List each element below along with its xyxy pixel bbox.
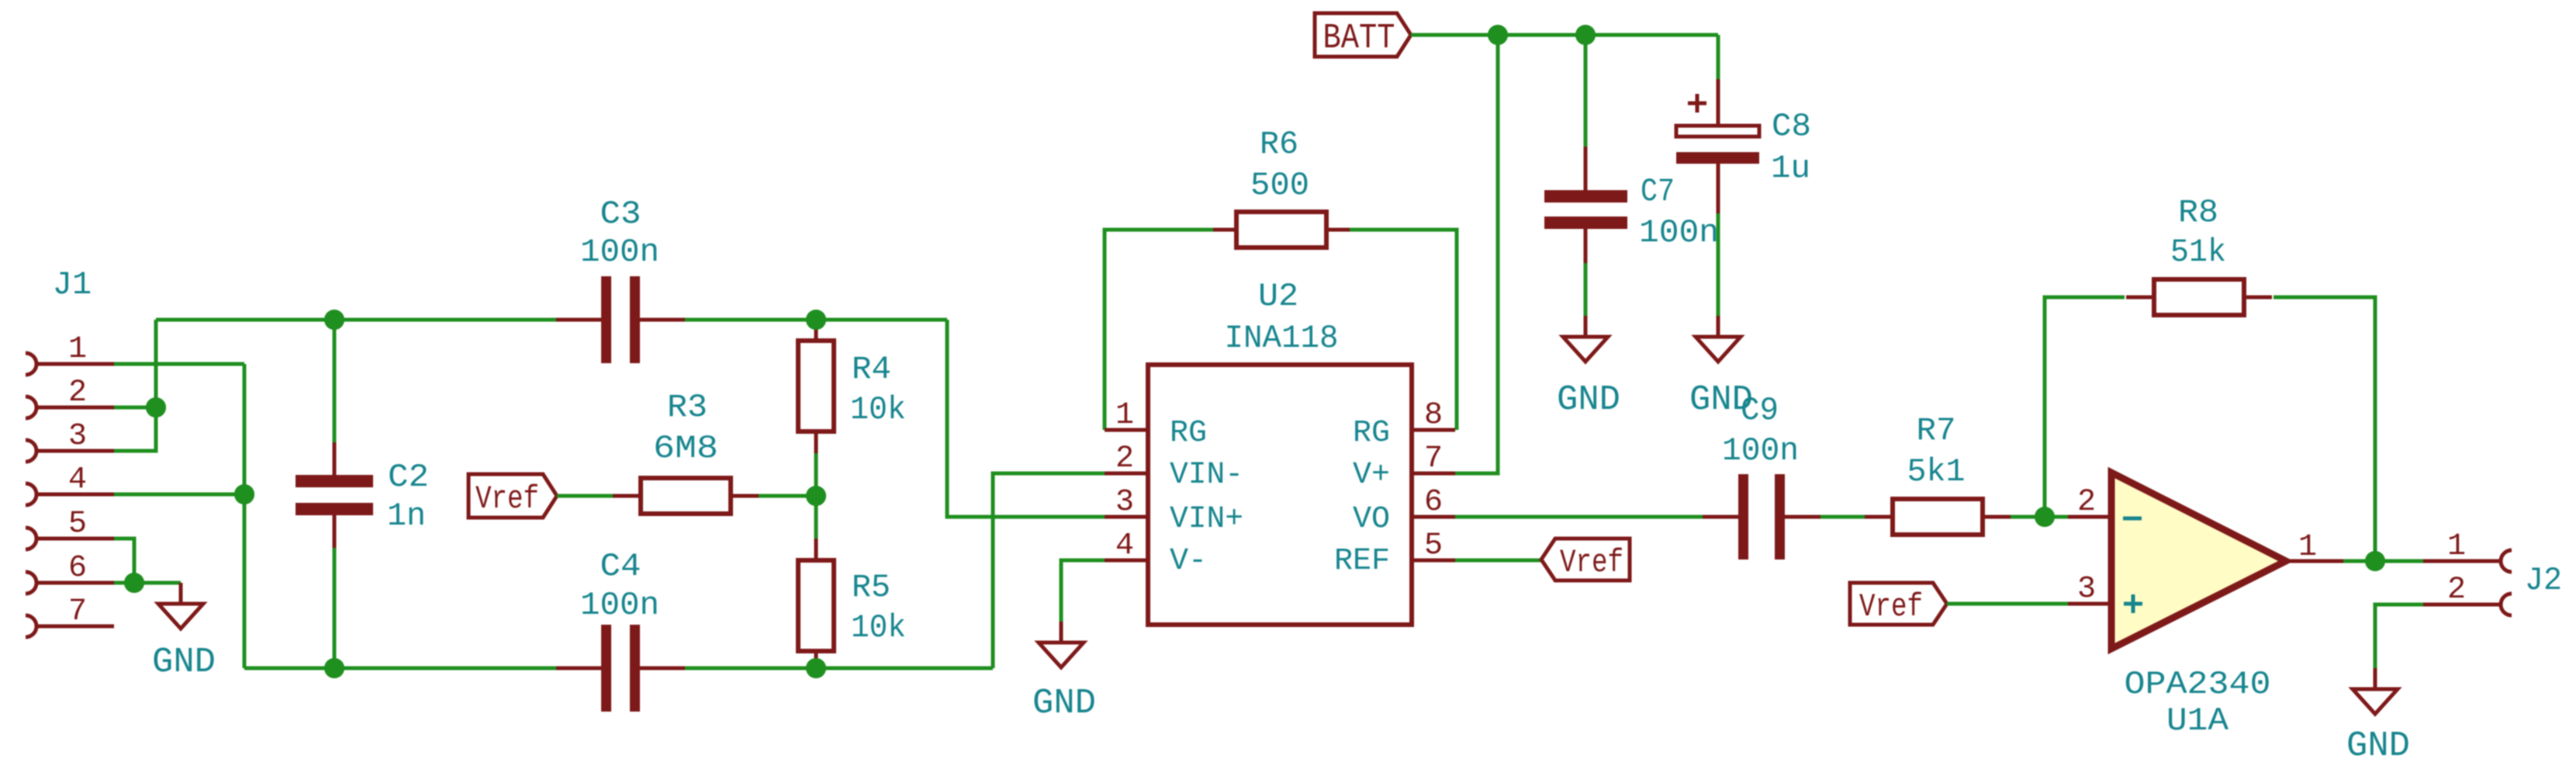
op-amp U1A OPA2340 [2111, 473, 2286, 649]
wire C8 bottom [1717, 213, 1720, 316]
capacitor C4 [556, 625, 685, 712]
U2 pin stubs 1-4 (left) and 5-8 (right) [1105, 430, 1455, 560]
svg-text:GND: GND [152, 643, 216, 682]
svg-text:C9: C9 [1741, 392, 1779, 429]
svg-text:5: 5 [1424, 528, 1443, 563]
svg-text:4: 4 [1115, 528, 1134, 563]
wire R8 to output node [2273, 297, 2375, 561]
wire C2 top lead [333, 442, 337, 475]
svg-text:7: 7 [68, 594, 87, 629]
power flag Vref (R3) [469, 474, 557, 518]
wire C8 top [1717, 35, 1720, 79]
wire J1 pin6 to ground [114, 581, 181, 585]
svg-text:3: 3 [68, 419, 87, 454]
svg-text:C7: C7 [1641, 173, 1675, 210]
svg-text:REF: REF [1334, 544, 1390, 579]
junction dots overlay [124, 25, 2385, 678]
svg-text:8: 8 [1424, 398, 1443, 433]
svg-text:51k: 51k [2170, 234, 2226, 271]
wire U2 V- to ground [1061, 560, 1105, 622]
junction output node [2365, 551, 2385, 571]
svg-text:1u: 1u [1771, 150, 1810, 187]
capacitor C7 [1544, 147, 1627, 272]
wire J1 pin1 to node [114, 362, 244, 366]
svg-text:R6: R6 [1260, 126, 1298, 163]
wire J2 pin2 to ground [2375, 605, 2423, 668]
power flag Vref (REF) [1541, 539, 1630, 580]
svg-text:R4: R4 [852, 351, 891, 388]
svg-text:VIN-: VIN- [1170, 458, 1243, 493]
svg-text:J1: J1 [53, 266, 92, 303]
svg-text:VO: VO [1353, 502, 1390, 537]
svg-text:500: 500 [1250, 167, 1309, 204]
wire C2 bottom [333, 548, 337, 668]
wire J1 pin2 to junction [114, 406, 156, 410]
junction top rail R4 [806, 310, 826, 330]
wire node up to R8 [2045, 297, 2125, 517]
wire R4 bottom to node [814, 453, 818, 496]
junction J1 pin2/pin3 node [146, 397, 166, 417]
ground symbol GND (C7) [1584, 316, 1588, 337]
svg-text:6M8: 6M8 [653, 430, 718, 467]
svg-text:V+: V+ [1353, 458, 1390, 493]
resistor R3 [613, 478, 759, 514]
junction bottom rail R5 [806, 658, 826, 678]
resistor R8 [2126, 279, 2272, 315]
ground symbol GND (J2) [2374, 668, 2377, 689]
svg-text:RG: RG [1170, 416, 1207, 451]
resistor R5 [798, 539, 834, 673]
junction R7/R8/pin2 node [2035, 507, 2055, 527]
capacitor C3 [556, 276, 685, 363]
wire U2 REF to Vref [1455, 559, 1541, 563]
svg-text:Vref: Vref [1859, 588, 1923, 625]
svg-text:6: 6 [68, 551, 87, 586]
wire Vref to R3 [557, 494, 613, 498]
svg-text:3: 3 [2077, 572, 2096, 607]
capacitor C8 (polarized) [1676, 79, 1759, 213]
svg-text:1: 1 [1115, 398, 1134, 433]
svg-text:U1A: U1A [2166, 702, 2229, 740]
wire vertical pin1/pin4 down to bottom rail [243, 364, 247, 668]
svg-text:4: 4 [68, 463, 87, 497]
svg-text:10k: 10k [851, 609, 906, 646]
wire C7 top [1584, 35, 1588, 147]
wire C2 top [333, 320, 337, 442]
svg-text:INA118: INA118 [1225, 320, 1339, 357]
junction J1 pin4 node [234, 484, 254, 504]
wire R3 to node [759, 494, 816, 498]
svg-text:1: 1 [68, 332, 87, 367]
svg-text:OPA2340: OPA2340 [2125, 666, 2271, 703]
junction R3/R4/R5 node [806, 486, 826, 506]
wire bottom rail up to VIN- [993, 473, 1105, 668]
J2 pin numbers [2447, 529, 2466, 608]
svg-text:R7: R7 [1917, 412, 1956, 449]
svg-text:10k: 10k [850, 391, 906, 428]
junction J1 pin5/pin6 node [124, 573, 144, 593]
junction C2 top rail [324, 310, 344, 330]
wire R6 left to U2 pin1 [1105, 230, 1213, 430]
wire top rail left segment [156, 318, 556, 322]
wire bottom rail right segment [685, 667, 993, 670]
wire Vref to U1A pin3 [1947, 602, 2068, 606]
junction C2 bottom rail [324, 658, 344, 678]
svg-text:2: 2 [2077, 485, 2096, 520]
svg-text:C8: C8 [1772, 108, 1811, 145]
wire top rail right segment [685, 318, 947, 322]
junction BATT/C7 rail [1575, 25, 1596, 45]
svg-text:C4: C4 [600, 548, 641, 585]
svg-text:C2: C2 [388, 459, 429, 496]
wire C9 to R7 [1820, 515, 1865, 519]
svg-text:100n: 100n [1639, 214, 1719, 251]
svg-text:3: 3 [1115, 485, 1134, 520]
svg-text:2: 2 [2447, 573, 2466, 608]
svg-text:100n: 100n [580, 587, 659, 624]
power flag BATT [1315, 13, 1411, 57]
svg-text:V-: V- [1170, 544, 1207, 579]
connector J2 [2423, 550, 2512, 615]
capacitor C2 [296, 475, 373, 515]
wire R6 right to U2 pin8 [1350, 230, 1457, 430]
U1A pin stubs [2068, 517, 2343, 604]
op-amp U2 INA118 body [1148, 365, 1412, 625]
resistor R4 [798, 319, 834, 453]
svg-text:5: 5 [68, 507, 87, 542]
svg-text:1: 1 [2447, 529, 2466, 564]
wire J1 pin3 up to top rail [114, 320, 156, 451]
wire R5 top to node [814, 496, 818, 539]
svg-text:1: 1 [2298, 530, 2317, 565]
ground symbol GND (U2 V-) [1060, 622, 1063, 643]
wire J1 pin5 down [114, 539, 134, 583]
svg-text:R3: R3 [667, 389, 707, 426]
resistor R7 [1865, 499, 2011, 535]
svg-text:2: 2 [68, 376, 87, 411]
svg-text:R5: R5 [852, 569, 890, 606]
svg-text:7: 7 [1424, 442, 1443, 476]
svg-text:R8: R8 [2178, 194, 2218, 231]
svg-text:Vref: Vref [475, 480, 539, 518]
svg-text:GND: GND [2346, 726, 2410, 766]
junction BATT/V+ rail [1488, 25, 1508, 45]
wire bottom rail left segment [244, 667, 556, 670]
U1A input polarity marks [2123, 518, 2142, 613]
svg-text:100n: 100n [1722, 432, 1799, 469]
power flag Vref (U1A) [1850, 583, 1947, 625]
wire U1A output to J2 pin1 [2343, 560, 2423, 563]
resistor R6 [1213, 212, 1350, 248]
wire V+ down to U2 pin7 [1455, 35, 1498, 473]
wire C7 bottom [1584, 263, 1588, 316]
U1A pin numbers [2077, 485, 2317, 607]
svg-text:C3: C3 [600, 196, 641, 233]
ground symbol GND (C8) [1717, 316, 1720, 337]
J1 pin numbers 1-7 [68, 332, 87, 629]
ground symbol GND (J1) [179, 583, 183, 604]
wire R7 to U1A pin2 [2011, 515, 2068, 519]
svg-text:100n: 100n [580, 234, 659, 271]
wire BATT rail [1411, 33, 1718, 37]
svg-text:U2: U2 [1258, 278, 1298, 315]
svg-text:6: 6 [1424, 485, 1443, 520]
svg-text:GND: GND [1557, 380, 1620, 420]
U2 pin numbers [1115, 398, 1443, 563]
svg-text:GND: GND [1032, 684, 1096, 723]
svg-text:VIN+: VIN+ [1170, 502, 1243, 537]
svg-text:RG: RG [1353, 416, 1390, 451]
wire U2 VO to C9 [1455, 515, 1703, 519]
U2 pin names [1170, 416, 1390, 579]
svg-text:1n: 1n [387, 497, 426, 535]
wire C2 bottom lead [333, 515, 337, 548]
svg-text:2: 2 [1115, 442, 1134, 476]
svg-text:5k1: 5k1 [1907, 453, 1966, 490]
wire J1 pin4 to junction [114, 493, 244, 497]
svg-text:Vref: Vref [1560, 544, 1623, 581]
svg-text:J2: J2 [2525, 562, 2562, 599]
wire top rail down to VIN+ [947, 320, 1105, 517]
svg-text:BATT: BATT [1323, 19, 1395, 58]
capacitor C9 [1703, 474, 1820, 560]
connector J1 [26, 353, 114, 637]
